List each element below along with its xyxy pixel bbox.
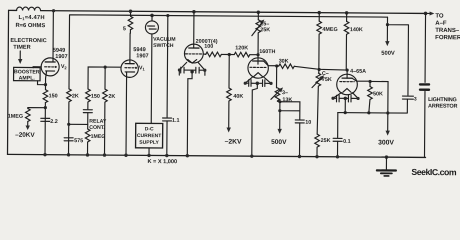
resistor 1MEG (-20KV) <box>25 109 30 127</box>
svg-text:500V: 500V <box>381 51 395 57</box>
resistor 150 (V2 cathode) <box>44 85 46 90</box>
resistor 120K <box>229 53 234 55</box>
svg-text:30K: 30K <box>279 59 289 65</box>
label K = X 1,000 <box>147 159 177 165</box>
watermark SeekIC.com <box>411 167 457 177</box>
tube 4-65A <box>346 70 348 75</box>
svg-text:2.2: 2.2 <box>50 119 58 125</box>
svg-text:5949: 5949 <box>53 48 65 54</box>
svg-text:SeekIC.com: SeekIC.com <box>411 167 457 177</box>
potentiometer 15-25K <box>257 10 261 14</box>
svg-text:3: 3 <box>414 96 417 102</box>
svg-text:TIMER: TIMER <box>13 45 30 51</box>
wire booster to cathode <box>38 81 46 85</box>
resistor 30K plate line <box>277 65 279 67</box>
svg-text:150: 150 <box>91 94 100 100</box>
node V2 plate on bus <box>52 9 55 12</box>
resistor 150 (col C) <box>86 89 91 102</box>
potentiometer 3-13K <box>276 66 278 88</box>
supply 300V <box>387 113 389 132</box>
svg-text:CONT.: CONT. <box>89 125 105 131</box>
svg-text:575: 575 <box>74 138 83 144</box>
supply 500V <box>279 111 281 130</box>
svg-text:500V: 500V <box>271 139 287 146</box>
svg-text:1.1: 1.1 <box>172 118 180 124</box>
inductor L1 coil <box>17 7 41 11</box>
svg-text:–20KV: –20KV <box>15 132 35 139</box>
capacitor relay <box>83 110 92 113</box>
capacitor 10 <box>295 120 304 123</box>
wire V1 grid line <box>88 67 121 89</box>
node rail2 corner to 500V and coupling branch <box>387 17 409 95</box>
capacitor 0.1 <box>337 113 339 138</box>
svg-text:ELECTRONIC: ELECTRONIC <box>10 38 46 44</box>
svg-text:140K: 140K <box>350 27 363 33</box>
resistor 2K (col B) <box>68 87 70 89</box>
wire filament rail2 <box>69 15 388 89</box>
supply 500V (rail2) <box>386 23 389 26</box>
filament 4-65A <box>343 89 351 93</box>
node junction 109 <box>44 106 47 109</box>
svg-text:4MEG: 4MEG <box>322 27 337 33</box>
svg-text:50K: 50K <box>373 91 383 97</box>
svg-text:100: 100 <box>204 44 213 50</box>
svg-text:0.1: 0.1 <box>343 139 351 145</box>
wire timer arrow <box>19 51 21 60</box>
wire branch to 1MEG <box>28 108 46 109</box>
booster amplifier box <box>14 67 41 80</box>
svg-text:120K: 120K <box>235 45 248 51</box>
svg-text:SWITCH: SWITCH <box>153 43 174 49</box>
svg-text:K = X 1,000: K = X 1,000 <box>147 159 177 165</box>
svg-text:2K: 2K <box>108 94 115 100</box>
svg-text:D-C: D-C <box>145 126 154 132</box>
wire left border <box>8 10 9 154</box>
resistor 1MEG (relay) <box>85 129 90 142</box>
svg-text:ARRESTOR: ARRESTOR <box>428 103 457 109</box>
svg-text:R=6 OHMS: R=6 OHMS <box>15 23 45 29</box>
resistor 100 (grid) <box>203 53 206 55</box>
capacitor 2.2 <box>41 118 50 121</box>
filament 160TH <box>254 73 263 77</box>
wire top bus <box>9 10 426 13</box>
svg-text:160TH: 160TH <box>259 49 275 55</box>
svg-text:TO: TO <box>435 14 444 20</box>
svg-text:150: 150 <box>49 93 58 99</box>
svg-text:4–65A: 4–65A <box>350 69 366 75</box>
svg-text:–2KV: –2KV <box>225 139 243 146</box>
capacitor 1.1 <box>166 14 169 17</box>
svg-text:10: 10 <box>305 120 311 126</box>
resistor 5 (V1 plate) <box>130 11 132 16</box>
tube 160TH <box>257 55 259 64</box>
tube V1 <box>121 60 139 78</box>
svg-text:5949: 5949 <box>133 47 145 53</box>
ground <box>385 155 389 159</box>
svg-text:CURRENT: CURRENT <box>137 133 161 139</box>
wire branch to relay node <box>69 123 88 125</box>
node V2 cathode junction <box>44 83 47 86</box>
svg-text:A–F: A–F <box>435 21 447 27</box>
svg-text:AMPL.: AMPL. <box>19 75 36 81</box>
svg-text:25K: 25K <box>260 27 270 33</box>
svg-text:2K: 2K <box>72 94 79 100</box>
vacuum switch <box>150 14 154 18</box>
label -20KV <box>15 132 35 139</box>
lightning arrestor <box>424 13 427 82</box>
D-C current supply box <box>136 123 163 148</box>
resistor 50K <box>368 80 371 83</box>
svg-text:1MEG: 1MEG <box>8 114 23 120</box>
wire plate line to 300V node <box>370 81 388 113</box>
svg-text:1MEG: 1MEG <box>91 134 106 140</box>
resistor 2K (col D) <box>103 89 108 102</box>
label 5949 1907 V2 <box>53 48 68 71</box>
svg-text:SUPPLY: SUPPLY <box>139 140 159 146</box>
svg-text:75K: 75K <box>322 77 332 83</box>
resistor 25K <box>315 134 320 147</box>
resistor 40K to -2KV <box>228 54 230 87</box>
svg-text:1907: 1907 <box>55 54 67 60</box>
svg-text:1907: 1907 <box>136 53 148 59</box>
potentiometer C-75K <box>318 69 320 73</box>
wire cathode bus line <box>338 112 407 115</box>
svg-text:FORMER: FORMER <box>435 35 460 41</box>
svg-text:40K: 40K <box>233 94 243 100</box>
resistor 140K <box>345 11 349 15</box>
resistor 4MEG <box>317 11 321 15</box>
tube 2000T(4) <box>192 10 196 14</box>
wire to A-F transformer <box>424 12 428 16</box>
wire bottom bus <box>8 154 426 157</box>
capacitor 3 (coupling) <box>402 96 413 99</box>
svg-text:L1=4.47H: L1=4.47H <box>18 15 44 21</box>
tube V2 <box>41 58 59 76</box>
svg-text:300V: 300V <box>378 139 394 146</box>
svg-text:V1: V1 <box>139 65 146 71</box>
bottom bus junction dots <box>43 153 339 159</box>
svg-text:5: 5 <box>123 26 126 32</box>
node 500V loop <box>278 100 281 103</box>
capacitor 575 <box>64 138 73 141</box>
svg-text:25K: 25K <box>321 138 331 144</box>
svg-text:TRANS–: TRANS– <box>435 28 460 34</box>
svg-text:V2: V2 <box>61 64 68 70</box>
svg-text:LIGHTNING: LIGHTNING <box>428 97 456 103</box>
label L1 value <box>10 15 47 51</box>
svg-text:3–: 3– <box>282 90 288 96</box>
svg-text:13K: 13K <box>282 97 292 103</box>
filament 2000T <box>188 59 197 63</box>
